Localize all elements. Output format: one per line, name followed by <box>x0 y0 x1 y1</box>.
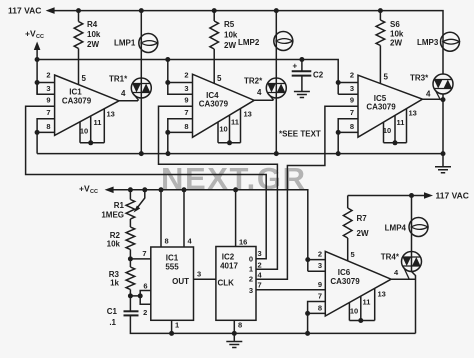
IC5 pins 2,3 wires <box>338 83 358 95</box>
junction IC6 pin2 <box>305 257 310 262</box>
junction IC6 pin8 <box>305 311 310 316</box>
svg-text:4: 4 <box>121 89 126 98</box>
svg-text:R4: R4 <box>87 20 98 29</box>
op-amp IC6 CA3079 <box>325 251 391 316</box>
junction IC4 feed <box>165 57 170 62</box>
svg-text:11: 11 <box>363 298 371 307</box>
svg-text:117 VAC: 117 VAC <box>436 191 469 201</box>
wire 4017 pin16 riser <box>235 190 237 247</box>
IC1 pins 2,3 bracket <box>37 83 55 95</box>
op-amp IC5 CA3079 <box>358 75 423 137</box>
svg-text:*SEE TEXT: *SEE TEXT <box>279 130 321 139</box>
svg-text:+V: +V <box>25 29 36 39</box>
arrow 117 VAC left <box>46 7 55 14</box>
wire LMP4-TR4 chain <box>412 196 416 334</box>
svg-text:3: 3 <box>350 84 354 93</box>
wire 555 OUT to CLK <box>194 278 216 280</box>
wire 555 pin1 <box>171 320 173 333</box>
ground below TR3 <box>435 167 451 173</box>
svg-text:10: 10 <box>219 125 227 134</box>
svg-text:TR3*: TR3* <box>410 74 429 83</box>
wire bottom rail <box>130 315 415 333</box>
junction IC6 pin11 <box>358 318 363 323</box>
svg-text:LMP3: LMP3 <box>417 38 439 47</box>
junctions on common rail <box>139 151 144 156</box>
svg-text:9: 9 <box>46 96 50 105</box>
IC6 pins 10,11,13 <box>349 288 374 320</box>
lamp LMP1 <box>139 34 158 53</box>
svg-text:8: 8 <box>184 122 188 131</box>
svg-text:10: 10 <box>383 126 391 135</box>
svg-text:1: 1 <box>175 321 179 330</box>
triac TR2 <box>266 78 286 98</box>
svg-text:7: 7 <box>184 108 188 117</box>
svg-text:7: 7 <box>318 292 322 301</box>
svg-text:11: 11 <box>231 118 239 127</box>
arrow +Vcc bottom <box>105 187 114 194</box>
svg-text:S6: S6 <box>390 20 400 29</box>
svg-text:R1: R1 <box>114 201 125 210</box>
wire LMP1-TR1 chain <box>140 11 142 154</box>
junction IC5 pin8 <box>336 130 341 135</box>
resistor R1 1MEG <box>129 190 131 200</box>
wire IC5 pin9 to 4017 out2 <box>256 106 358 279</box>
svg-text:R5: R5 <box>224 20 235 29</box>
svg-text:1MEG: 1MEG <box>101 211 124 220</box>
IC4 pins 10,11,13 <box>218 109 241 143</box>
junction pin6 node <box>138 293 143 298</box>
svg-text:OUT: OUT <box>172 277 189 286</box>
wire LMP2-TR2 chain <box>275 11 277 154</box>
svg-text:8: 8 <box>350 122 354 131</box>
svg-text:13: 13 <box>107 110 115 119</box>
svg-text:2: 2 <box>249 275 253 284</box>
wire 4017 out3 to IC6 pin9 <box>256 289 325 291</box>
resistor R4 <box>78 11 80 22</box>
junction C2 on Vcc rail <box>299 57 304 62</box>
wire IC1 pin9 to 4017 out0 <box>26 106 267 259</box>
capacitor C2 <box>301 60 303 72</box>
svg-text:10: 10 <box>80 127 88 136</box>
wire IC6 pin8 to gnd rail <box>307 313 309 333</box>
wire +Vcc bottom rail <box>113 190 308 271</box>
wire IC5 pin4 output <box>423 94 444 166</box>
junction +Vcc rail <box>35 57 40 62</box>
svg-text:9: 9 <box>350 96 354 105</box>
resistor S6 <box>379 11 381 20</box>
svg-text:IC2: IC2 <box>222 253 235 262</box>
svg-text:CC: CC <box>90 189 98 195</box>
wire 555 pin8 riser <box>160 190 162 247</box>
svg-text:2: 2 <box>184 71 188 80</box>
triac TR1 <box>131 78 151 98</box>
triac TR3 <box>433 74 453 94</box>
arrow 117 VAC right <box>424 192 433 199</box>
svg-text:5: 5 <box>351 250 355 259</box>
svg-text:9: 9 <box>184 96 188 105</box>
junction R3-C1 node <box>128 293 133 298</box>
junction R2-R3 pin7 node <box>128 256 133 261</box>
IC4 pins 7,8 bracket <box>168 119 193 133</box>
svg-text:CA3079: CA3079 <box>366 103 396 112</box>
svg-text:R7: R7 <box>357 214 368 223</box>
wire IC5 pin8 to common rail <box>337 132 339 153</box>
svg-text:IC1: IC1 <box>69 88 82 97</box>
svg-text:+V: +V <box>79 184 90 194</box>
junction IC5 pin11 <box>393 140 398 145</box>
svg-text:555: 555 <box>165 263 179 272</box>
svg-text:C2: C2 <box>313 71 324 80</box>
wire 4017 pin8 <box>233 320 235 333</box>
svg-text:117 VAC: 117 VAC <box>8 6 41 16</box>
junction IC1 pin8 <box>35 130 40 135</box>
svg-text:LMP1: LMP1 <box>114 39 136 48</box>
junction IC1 pin11 <box>88 140 93 145</box>
svg-text:TR1*: TR1* <box>109 75 128 84</box>
svg-text:3: 3 <box>46 84 50 93</box>
svg-text:2W: 2W <box>390 39 402 48</box>
wire +Vcc vertical to IC1 pins 2,3 <box>36 50 38 95</box>
svg-text:5: 5 <box>82 74 87 83</box>
IC6 pins 2,3 wires <box>308 260 326 272</box>
IC5 pins 7,8 bracket <box>338 119 358 133</box>
svg-text:7: 7 <box>258 280 262 289</box>
svg-text:2: 2 <box>350 71 354 80</box>
svg-text:4: 4 <box>426 90 431 99</box>
junction IC4 pin8 <box>165 130 170 135</box>
R1 wiper arm <box>136 190 145 210</box>
svg-text:7: 7 <box>142 249 146 258</box>
svg-text:16: 16 <box>239 238 247 247</box>
svg-text:5: 5 <box>217 74 222 83</box>
svg-text:3: 3 <box>258 249 262 258</box>
svg-text:TR4*: TR4* <box>381 253 400 262</box>
svg-text:LMP2: LMP2 <box>238 38 260 47</box>
wire IC1 pin8 to common rail <box>36 132 38 153</box>
junction dots on top rail <box>76 8 81 13</box>
svg-text:10: 10 <box>350 307 358 316</box>
svg-text:1: 1 <box>249 265 253 274</box>
ground below 4017 <box>233 333 235 341</box>
IC4 pins 2,3 bracket <box>168 60 193 95</box>
svg-text:13: 13 <box>409 109 417 118</box>
svg-text:3: 3 <box>249 286 253 295</box>
svg-text:8: 8 <box>238 321 242 330</box>
resistor R5 <box>213 11 215 21</box>
svg-text:TR2*: TR2* <box>244 77 263 86</box>
wire IC4 pin8 to common rail <box>167 132 169 153</box>
junction IC5 pin2 <box>336 80 341 85</box>
svg-text:9: 9 <box>318 280 322 289</box>
wire +Vcc rail y59 to IC5 pins <box>37 60 338 95</box>
wire IC1 pin4 output <box>119 100 138 102</box>
lamp LMP3 <box>441 32 460 51</box>
wire R7 top to 117VAC <box>348 195 424 197</box>
svg-text:C1: C1 <box>107 307 118 316</box>
svg-text:8: 8 <box>165 237 169 246</box>
svg-text:8: 8 <box>46 122 50 131</box>
op-amp IC1 CA3079 <box>55 75 119 135</box>
junction 4017 pin8 on gnd rail <box>232 331 237 336</box>
svg-text:10k: 10k <box>224 31 238 40</box>
svg-text:3: 3 <box>197 270 201 279</box>
svg-text:IC6: IC6 <box>338 268 351 277</box>
svg-text:.1: .1 <box>109 318 116 327</box>
capacitor C1 <box>124 310 139 312</box>
IC2 4017 box <box>216 247 256 321</box>
resistor R2 <box>126 227 135 250</box>
svg-text:CA3079: CA3079 <box>62 97 92 106</box>
wire 555 pin7 <box>130 258 150 260</box>
junction TR3 to common rail <box>441 151 446 156</box>
lamp LMP4 <box>409 218 428 237</box>
wire IC6 pin4 output <box>391 278 415 280</box>
resistor R7 <box>347 196 349 209</box>
svg-text:2: 2 <box>318 250 322 259</box>
svg-text:1k: 1k <box>110 279 119 288</box>
svg-text:13: 13 <box>378 290 386 299</box>
junction IC4 pin11 <box>227 140 232 145</box>
IC1 pins 10,11,13 <box>80 109 104 143</box>
svg-text:11: 11 <box>94 118 102 127</box>
svg-text:CLK: CLK <box>218 279 235 288</box>
ground below C2 <box>294 92 310 98</box>
wire IC4 pin9 to 4017 out1 <box>159 106 278 269</box>
svg-text:LMP4: LMP4 <box>385 224 407 233</box>
svg-text:CA3079: CA3079 <box>330 277 360 286</box>
svg-text:4: 4 <box>257 88 262 97</box>
junction IC1 pin2 <box>35 80 40 85</box>
svg-text:2W: 2W <box>357 229 369 238</box>
svg-text:10k: 10k <box>390 30 404 39</box>
svg-text:7: 7 <box>350 108 354 117</box>
svg-text:+: + <box>293 62 298 71</box>
junction LMP4 chain <box>409 193 414 198</box>
wire IC4 pin4 output <box>254 99 273 101</box>
svg-text:2W: 2W <box>87 40 99 49</box>
svg-text:2: 2 <box>143 308 147 317</box>
svg-text:2W: 2W <box>224 41 236 50</box>
svg-text:IC1: IC1 <box>166 254 179 263</box>
resistor R3 <box>126 267 135 290</box>
wire 555 pin4 riser <box>183 190 185 247</box>
svg-text:3: 3 <box>318 261 322 270</box>
wire top 117VAC rail <box>54 11 443 74</box>
svg-text:CC: CC <box>36 34 44 40</box>
svg-text:5: 5 <box>384 73 389 82</box>
svg-text:0: 0 <box>249 255 253 264</box>
svg-text:6: 6 <box>143 282 147 291</box>
svg-text:10k: 10k <box>107 240 121 249</box>
arrow +Vcc up <box>34 42 41 51</box>
junction 555 pin1 on gnd rail <box>169 331 174 336</box>
wire pin6 pin2 node <box>130 291 150 305</box>
junctions on +Vcc bottom rail <box>128 187 133 192</box>
IC6 pins 7,8 bracket <box>308 302 326 314</box>
triac TR4 <box>402 252 422 272</box>
svg-text:13: 13 <box>244 110 252 119</box>
svg-text:11: 11 <box>397 118 405 127</box>
junction IC6 on gnd rail <box>305 331 310 336</box>
svg-text:10k: 10k <box>87 30 101 39</box>
svg-text:3: 3 <box>184 84 188 93</box>
svg-text:7: 7 <box>46 108 50 117</box>
junction IC4 pin2 <box>165 80 170 85</box>
wire common rail y153 <box>37 153 443 155</box>
lamp LMP2 <box>274 32 293 51</box>
svg-text:2: 2 <box>258 260 262 269</box>
op-amp IC4 CA3079 <box>193 74 255 137</box>
IC1 555 box <box>151 247 194 320</box>
svg-text:2: 2 <box>46 71 50 80</box>
IC1 pins 7,8 bracket <box>37 119 55 133</box>
svg-text:8: 8 <box>318 304 322 313</box>
IC5 pins 10,11,13 <box>384 109 407 143</box>
junction TR3 gate node <box>441 97 446 102</box>
svg-text:4017: 4017 <box>220 262 238 271</box>
svg-text:CA3079: CA3079 <box>199 100 229 109</box>
